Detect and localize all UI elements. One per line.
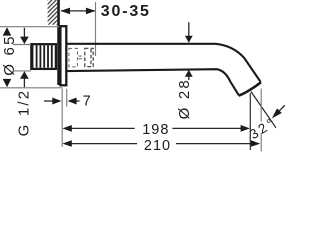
D65 arrow up (3, 27, 12, 35)
wall surface line (57, 0, 60, 85)
flow direction diagonal (251, 92, 276, 128)
threaded nipple (32, 44, 56, 69)
dimension D28 arrow down (188, 22, 190, 36)
svg-text:Ø 28: Ø 28 (176, 78, 193, 119)
dimension 210 line (70, 143, 137, 145)
svg-text:Ø 65: Ø 65 (1, 34, 18, 75)
dimension 198 line (70, 127, 135, 129)
G1/2 extension top (13, 44, 31, 46)
dimension D28 arrow up (188, 77, 190, 81)
extension line 210 right (260, 89, 262, 122)
svg-text:30-35: 30-35 (101, 3, 151, 20)
hidden dashes between boxes (79, 55, 85, 57)
nipple thread stripes (37, 45, 52, 67)
dimension 7 right arrow (74, 100, 80, 102)
escutcheon flange (60, 26, 66, 85)
svg-text:G 1/2: G 1/2 (15, 89, 32, 137)
hidden aerator dashed box B (85, 48, 93, 66)
G1/2 arrow up (23, 78, 25, 87)
G1/2 extension bottom (13, 70, 31, 72)
spout outlet face (239, 82, 261, 96)
nipple left cap (30, 43, 33, 70)
dimension 7 left arrow (44, 100, 54, 102)
dimension 30-35 line with arrows (61, 10, 95, 12)
hidden aerator dashed box A (69, 48, 78, 66)
svg-text:198: 198 (142, 122, 169, 138)
dimension D65 extension top (0, 26, 59, 28)
D65 arrow down (3, 79, 12, 87)
G1/2 arrow down (23, 28, 25, 37)
spout tube bottom edge (67, 69, 239, 95)
svg-text:210: 210 (144, 138, 171, 153)
extension line 198 right (249, 93, 251, 150)
svg-text:7: 7 (83, 93, 92, 109)
dimension D65 extension bottom (0, 87, 62, 89)
dimension 7 extensions (61, 89, 63, 147)
extension line right of 30-35 (95, 2, 97, 56)
angle leader arrow (279, 105, 285, 111)
wall hatching (43, 0, 62, 43)
spout tube top edge (67, 44, 261, 82)
